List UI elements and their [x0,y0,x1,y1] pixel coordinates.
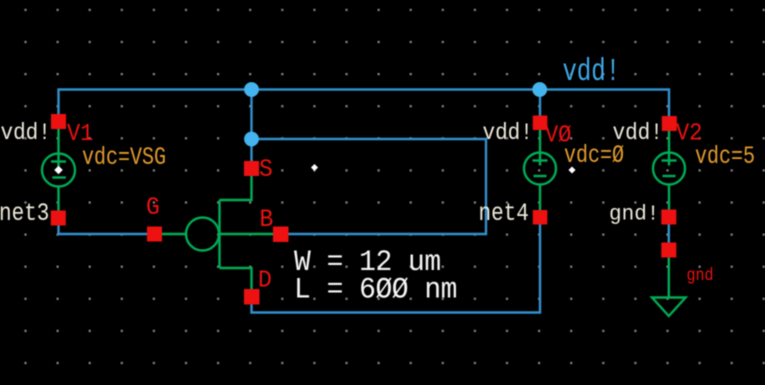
svg-text:D: D [258,267,272,295]
svg-text:S: S [259,156,273,184]
pin S [244,161,259,176]
pin B [273,227,289,243]
wire vdd! drop to V0 [539,90,541,117]
svg-text:gnd!: gnd! [609,204,659,227]
origin marker transistor [311,164,318,171]
svg-text:B: B [260,206,274,234]
voltage source V1 [42,129,75,211]
pin V2 plus [662,116,677,131]
ground symbol gnd [652,258,686,316]
svg-text:vdc=VSG: vdc=VSG [82,143,166,172]
origin marker V0 [568,166,575,173]
pin V0 minus / node net4 [533,210,548,225]
junction at S node / bulk tie [244,132,259,147]
origin marker V1 [54,166,62,174]
svg-text:G: G [146,194,160,222]
pin V1 minus / node net3 [51,211,66,226]
svg-text:vdc=5: vdc=5 [695,142,755,171]
svg-text:L = 6ØØ nm: L = 6ØØ nm [294,273,457,307]
wire vdd! top rail with drops to V1 and V2 [59,90,670,117]
pin V2 minus / node gnd! [661,210,676,225]
wire vdd! drop to S node [250,90,252,162]
svg-text:vdd!: vdd! [563,55,621,90]
junction at vdd rail / S drop [244,82,259,97]
svg-text:vdd!: vdd! [1,120,51,146]
wire S-to-B bulk tie box [252,139,487,234]
voltage source V0 [524,129,556,211]
junction at vdd rail / V0 drop [532,82,547,97]
pin V0 plus [533,116,548,131]
pin V1 plus [51,114,66,129]
transistor PMOS (gate/bulk/source/drain) [162,176,273,289]
wire net3 to gate G [59,225,148,234]
wire drain D to net4 [252,225,541,313]
pin gnd symbol [661,243,676,258]
svg-text:gnd: gnd [687,265,714,286]
svg-text:net4: net4 [478,200,528,228]
pin D [244,289,260,305]
svg-text:vdd!: vdd! [483,120,533,146]
svg-text:net3: net3 [0,200,49,228]
voltage source V2 [653,131,685,210]
wire gnd! to gnd symbol [668,224,670,242]
svg-text:vdd!: vdd! [613,120,663,146]
pin G [147,227,162,242]
